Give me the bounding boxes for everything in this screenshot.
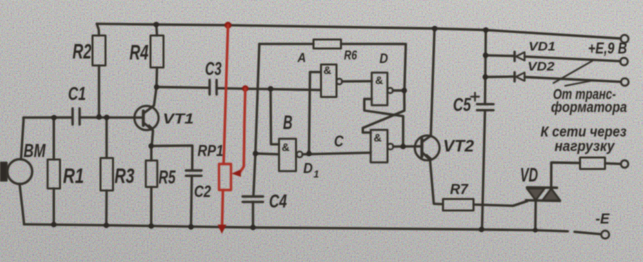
node rail C2	[188, 224, 193, 229]
red node on signal wire	[242, 85, 248, 91]
svg-text:R3: R3	[115, 165, 135, 188]
wire: loop top right segment	[341, 44, 406, 91]
svg-text:-E: -E	[596, 211, 611, 228]
wire: C output to VT2 base	[393, 145, 421, 148]
node VT1 collector	[154, 84, 159, 89]
node signal branch	[268, 86, 273, 91]
wire: C1 to VT1 base	[80, 116, 143, 119]
wire: R3 bottom lead	[105, 191, 108, 226]
svg-text:R6: R6	[344, 49, 358, 63]
wire: emitter node to C2	[151, 146, 192, 170]
wire: wiper line	[240, 89, 245, 173]
wire: R1 bottom lead	[53, 189, 55, 225]
svg-text:R2: R2	[73, 41, 92, 64]
wire: R5 bottom lead	[150, 187, 153, 226]
capacitor C5	[477, 103, 494, 105]
gate C	[371, 130, 388, 163]
svg-text:+Е,9 В: +Е,9 В	[588, 41, 627, 58]
triac VD	[527, 186, 557, 189]
node rail C5	[479, 227, 484, 232]
wire: collector to C3	[157, 86, 210, 89]
gate A	[321, 65, 337, 98]
wire: B output to C lower input	[303, 153, 371, 155]
wire: R5 top lead	[150, 146, 152, 161]
wire: load to terminal	[605, 162, 621, 165]
svg-text:1: 1	[314, 170, 320, 181]
svg-text:A: A	[297, 50, 306, 65]
wire: bottom rail dashed end	[575, 232, 601, 234]
wiper arrowhead	[232, 170, 241, 177]
svg-text:VD1: VD1	[529, 40, 556, 54]
wire: triac top lead to load	[551, 163, 580, 188]
capacitor C1	[71, 109, 73, 125]
wire: VT1 collector	[144, 87, 157, 113]
wire: B output riser to A input	[309, 72, 310, 153]
resistor load	[580, 158, 605, 170]
svg-text:R5: R5	[159, 168, 177, 188]
VT2 emitter arrow	[424, 154, 432, 161]
wire: C2 bottom lead	[190, 176, 193, 227]
wire: triac bottom lead	[534, 201, 537, 230]
gate B	[279, 139, 296, 171]
wire: branch down to gate B upper input	[271, 89, 279, 145]
resistor R7	[443, 199, 474, 211]
wire: R3 top lead	[105, 117, 107, 158]
svg-text:C4: C4	[269, 192, 287, 212]
resistor R2	[93, 36, 106, 66]
capacitor C2	[186, 169, 202, 171]
red arrow at bottom rail	[218, 225, 227, 234]
wire: pot to bottom arrow	[221, 190, 224, 225]
wire: base net horizontal	[24, 116, 73, 118]
microphone BM	[7, 159, 32, 184]
wire: R7 to triac gate	[474, 201, 528, 206]
wire: A output to D input	[342, 80, 372, 83]
wire: cross coupling C out to D in	[364, 99, 403, 147]
wire: R4 bottom lead	[155, 68, 158, 88]
node diode column top	[483, 27, 488, 32]
svg-text:C5: C5	[453, 94, 472, 115]
wire: feedback loop left vertical	[253, 44, 259, 196]
wire: C5 bottom lead	[482, 110, 485, 229]
resistor R3	[101, 158, 114, 191]
svg-text:C3: C3	[205, 59, 222, 79]
svg-text:VD: VD	[520, 166, 538, 187]
wire: VT2 emitter	[423, 153, 443, 204]
VT1 emitter arrow	[147, 124, 154, 131]
transistor VT2	[415, 136, 440, 161]
pointer lines transformer	[554, 61, 593, 83]
wire: VT2 collector	[423, 29, 435, 142]
wire: A upper input tie	[310, 71, 321, 73]
svg-text:&: &	[374, 132, 382, 144]
svg-text:VT1: VT1	[163, 111, 194, 127]
capacitor C3	[208, 80, 210, 95]
svg-text:нагрузку: нагрузку	[555, 138, 616, 155]
node VT1 emitter	[148, 143, 153, 148]
potentiometer RP1 body	[219, 164, 231, 190]
wire: C4 bottom lead	[252, 202, 254, 228]
svg-text:C2: C2	[194, 182, 211, 201]
wire: diode column	[484, 30, 487, 104]
svg-text:D: D	[380, 50, 389, 66]
wire: top supply rail	[97, 24, 621, 39]
svg-text:&: &	[375, 75, 383, 87]
red node on top rail	[225, 22, 232, 29]
red potentiometer RP1 and wiring	[218, 22, 249, 234]
svg-text:R4: R4	[130, 42, 149, 65]
node base R1	[51, 115, 56, 120]
svg-text:VT2: VT2	[443, 137, 475, 156]
wire: cross coupling D out to C in	[363, 91, 405, 133]
svg-text:R7: R7	[450, 181, 469, 198]
svg-text:C1: C1	[68, 84, 86, 104]
node base R2	[96, 114, 101, 119]
svg-text:C: C	[334, 133, 344, 150]
node rail R5	[149, 223, 154, 228]
svg-text:BM: BM	[24, 140, 46, 161]
svg-text:RP1: RP1	[198, 143, 224, 160]
wire: D output stub	[393, 89, 404, 91]
wire: bottom rail	[24, 224, 568, 231]
wire: loop top left segment	[259, 43, 313, 45]
svg-text:&: &	[323, 65, 331, 77]
resistor R1	[48, 160, 60, 189]
transistor VT1	[134, 106, 158, 130]
wire: red line rail to pot	[224, 25, 228, 164]
node VD1	[483, 53, 488, 58]
resistor R6	[314, 40, 342, 49]
wire: mic bottom lead	[20, 184, 24, 224]
node rail R3	[104, 223, 109, 228]
diode VD1	[486, 54, 515, 57]
C5 plus sign	[471, 96, 479, 98]
svg-text:B: B	[283, 113, 293, 134]
node loop B input	[253, 151, 258, 156]
wire: R1 top lead	[53, 118, 55, 160]
resistor R4	[151, 36, 164, 68]
node rail R1	[51, 222, 56, 227]
wire: R2 top lead	[97, 24, 99, 36]
wire: mic top lead	[21, 118, 24, 160]
node VT2 collector top	[432, 26, 437, 31]
svg-text:D: D	[303, 160, 313, 177]
node VD2	[483, 74, 488, 79]
node B output	[306, 151, 311, 156]
svg-text:VD2: VD2	[528, 60, 555, 74]
node D output	[402, 88, 407, 93]
node rail C4	[250, 225, 255, 230]
wire: VT1 emitter	[144, 123, 153, 146]
terminal -E	[601, 231, 609, 239]
wire: R2 bottom lead	[98, 66, 100, 117]
terminal +E	[621, 35, 629, 43]
svg-text:&: &	[282, 142, 290, 154]
node R4 top	[154, 22, 159, 27]
svg-text:форматора: форматора	[551, 99, 627, 116]
diode VD2	[485, 75, 514, 78]
capacitor C4	[243, 195, 263, 197]
wire: R4 top lead	[155, 25, 158, 36]
node C output	[400, 144, 405, 149]
wire: loop node to B lower input	[255, 152, 279, 155]
node base R3	[104, 115, 109, 120]
gate D	[372, 73, 388, 106]
node rail triac	[533, 228, 538, 233]
svg-text:R1: R1	[63, 165, 84, 188]
resistor R5	[146, 161, 158, 188]
wire: C3 to gate A input	[217, 88, 321, 90]
